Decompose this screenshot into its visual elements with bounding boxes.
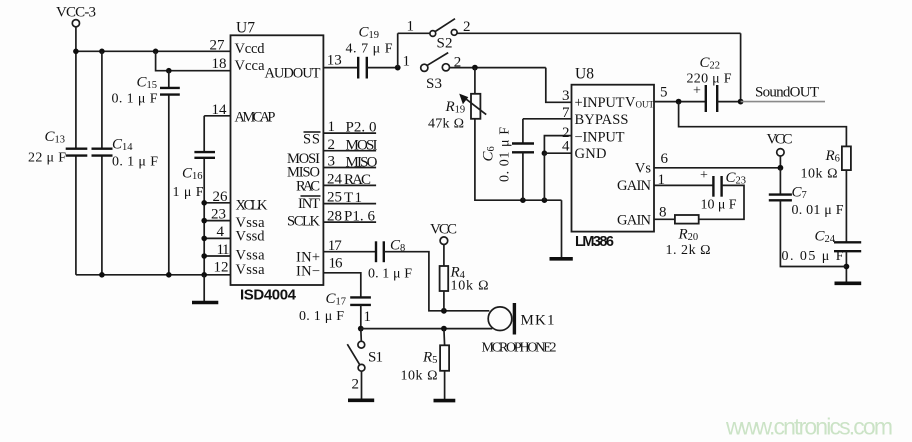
node junction bus C14 bbox=[99, 272, 105, 278]
op-amp U8 LM386 body bbox=[572, 66, 655, 251]
svg-text:8: 8 bbox=[659, 205, 667, 221]
wire S2 rail down to SoundOUT node bbox=[740, 33, 742, 101]
wire bus to ground bbox=[203, 275, 205, 302]
node junction pin18 branch corner bbox=[153, 49, 159, 55]
wire C15 vertical upper bbox=[168, 71, 170, 88]
wire S2 contact 2 to right rail bbox=[457, 32, 740, 34]
svg-text:S2: S2 bbox=[437, 36, 453, 52]
wire S1 to ground bbox=[361, 371, 363, 399]
pin 17 label IN+ bbox=[296, 238, 342, 265]
wire C14 vertical lower bbox=[101, 156, 103, 275]
pin 1 label GAIN bbox=[617, 172, 665, 194]
node junction SoundOUT bbox=[738, 99, 744, 105]
switch S3 bbox=[403, 53, 462, 92]
svg-text:MOSI: MOSI bbox=[346, 138, 378, 154]
wire C15 vertical lower bbox=[168, 95, 170, 275]
pin 16 label IN- bbox=[296, 256, 343, 280]
resistor R6 bbox=[801, 146, 851, 181]
wire C16 vertical upper bbox=[203, 116, 205, 152]
wire C19 to S3 node bbox=[367, 67, 398, 69]
pin 6 label Vs bbox=[635, 151, 669, 177]
capacitor C8 bbox=[368, 238, 412, 282]
power VCC (mic bias) bbox=[430, 221, 457, 266]
pin 18 label Vcca bbox=[212, 56, 266, 74]
switch S1 bbox=[347, 329, 383, 393]
pin 12 label Vssa bbox=[214, 259, 266, 278]
wire P1.6 stub bbox=[323, 209, 376, 225]
capacitor C15 bbox=[112, 75, 180, 107]
node junction pin4 bbox=[201, 236, 207, 242]
svg-text:Vcca: Vcca bbox=[235, 58, 266, 74]
wire rail corner to ground bbox=[561, 200, 563, 258]
wire XCLK stub pin26 bbox=[204, 202, 230, 204]
svg-text:P2. 0: P2. 0 bbox=[346, 120, 377, 136]
svg-text:VCC: VCC bbox=[430, 221, 457, 237]
capacitor C14 bbox=[92, 137, 159, 170]
svg-text:1. 2k Ω: 1. 2k Ω bbox=[666, 243, 711, 258]
svg-text:SS: SS bbox=[303, 132, 320, 148]
ground below S1 bbox=[348, 398, 374, 402]
pin 2 label -INPUT bbox=[562, 125, 625, 146]
op-amp U7 ISD4004 body bbox=[231, 19, 324, 303]
pin 28 label SCLK bbox=[287, 208, 342, 229]
wire MOSI stub bbox=[323, 138, 377, 154]
node junction R5 top bbox=[441, 326, 447, 332]
svg-text:GAIN: GAIN bbox=[617, 178, 652, 194]
svg-text:0. 01 μ F: 0. 01 μ F bbox=[792, 203, 844, 218]
svg-text:13: 13 bbox=[327, 53, 342, 69]
svg-text:18: 18 bbox=[212, 56, 227, 72]
pin 2 label MOSI bbox=[287, 137, 335, 167]
wire -INPUT stub bbox=[544, 136, 571, 154]
wire R5 to ground bbox=[444, 371, 446, 400]
node junction C6 bottom bbox=[520, 197, 526, 203]
svg-text:0. 1 μ F: 0. 1 μ F bbox=[299, 309, 344, 324]
pin 13 label AUDOUT bbox=[265, 53, 342, 82]
svg-text:+: + bbox=[700, 168, 708, 183]
capacitor C13 bbox=[28, 129, 87, 166]
wire Vssa stub pin11 bbox=[204, 255, 230, 257]
wire VCC-3 vertical lower (C13 bottom to bus) bbox=[75, 156, 77, 275]
pin 4 label GND bbox=[562, 139, 607, 163]
svg-text:1: 1 bbox=[364, 309, 372, 325]
wire C7 bottom to ground node bbox=[780, 200, 846, 266]
svg-text:0. 1 μ F: 0. 1 μ F bbox=[112, 92, 158, 107]
node junction pin23 bbox=[201, 218, 207, 224]
svg-text:GAIN: GAIN bbox=[617, 212, 652, 228]
wire BYPASS stub bbox=[523, 118, 572, 120]
wire split vertical to S2 row bbox=[397, 33, 399, 67]
node junction bus C16 bbox=[201, 272, 207, 278]
svg-text:10 μ F: 10 μ F bbox=[701, 198, 737, 213]
pin 8 label GAIN bbox=[617, 205, 667, 229]
svg-text:S1: S1 bbox=[368, 349, 383, 365]
svg-text:SCLK: SCLK bbox=[287, 213, 321, 229]
capacitor C19 bbox=[346, 25, 393, 79]
wire down to +INPUT bbox=[546, 68, 572, 103]
wire Vssd stub pin4 bbox=[204, 237, 230, 239]
svg-text:4: 4 bbox=[562, 139, 570, 155]
pin 7 label BYPASS bbox=[562, 105, 629, 128]
capacitor C7 bbox=[769, 168, 844, 218]
svg-text:27: 27 bbox=[210, 38, 226, 54]
svg-text:LM386: LM386 bbox=[575, 234, 614, 250]
wire P2.0 stub bbox=[323, 120, 376, 136]
svg-text:RAC: RAC bbox=[296, 179, 320, 195]
node SoundOUT bbox=[741, 85, 825, 102]
wire VCC-3 vertical upper (to C13 top) bbox=[75, 27, 77, 149]
pin 3 label MISO bbox=[287, 154, 335, 181]
svg-text:RAC: RAC bbox=[344, 172, 371, 188]
node junction C7 rail / C24 bbox=[844, 264, 850, 270]
node junction R19 tap bbox=[472, 65, 478, 71]
wire R19 bottom to ground rail bbox=[475, 119, 562, 200]
wire pin6 Vs to VCC node bbox=[654, 167, 780, 169]
svg-text:S3: S3 bbox=[426, 76, 442, 92]
svg-text:12: 12 bbox=[214, 259, 229, 275]
wire T1 stub bbox=[323, 190, 376, 206]
svg-text:VCC: VCC bbox=[767, 132, 793, 148]
pin 4 label Vssd bbox=[217, 224, 266, 244]
wire GND stub bbox=[544, 152, 571, 154]
wire R6 to C24 bbox=[845, 170, 847, 242]
resistor R4 bbox=[440, 264, 489, 293]
svg-text:26: 26 bbox=[213, 189, 229, 205]
svg-text:AMCAP: AMCAP bbox=[235, 110, 276, 126]
node junction Vs/C7 bbox=[778, 165, 784, 171]
wire pin1 GAIN to C23 bbox=[654, 184, 713, 186]
svg-text:P1. 6: P1. 6 bbox=[344, 209, 376, 225]
switch S2 bbox=[407, 18, 471, 51]
node junction VOUT branch bbox=[676, 99, 682, 105]
svg-text:SoundOUT: SoundOUT bbox=[755, 85, 819, 101]
svg-text:www.cntronics.com: www.cntronics.com bbox=[725, 414, 893, 440]
svg-text:1: 1 bbox=[403, 54, 411, 70]
pin 14 label AMCAP bbox=[212, 102, 276, 126]
node junction S1 tap bbox=[358, 326, 364, 332]
svg-text:14: 14 bbox=[212, 102, 228, 118]
capacitor C23 bbox=[700, 168, 746, 213]
svg-text:+: + bbox=[693, 84, 701, 99]
svg-text:MCROPHONE2: MCROPHONE2 bbox=[482, 341, 557, 356]
resistor R20 bbox=[666, 215, 711, 258]
wire node to mic lower terminal bbox=[361, 328, 493, 330]
capacitor C16 bbox=[173, 152, 216, 200]
svg-text:1: 1 bbox=[407, 18, 415, 34]
ground below bus bbox=[192, 301, 218, 305]
wire S3 contact 2 to U8 input bbox=[450, 67, 546, 69]
svg-text:11: 11 bbox=[217, 242, 230, 258]
wire Vssa stub pin23 bbox=[204, 220, 230, 222]
svg-text:0. 01 μ F: 0. 01 μ F bbox=[498, 127, 513, 182]
capacitor C22 bbox=[687, 55, 732, 112]
wire pin16 IN- out bbox=[323, 273, 360, 298]
svg-text:U8: U8 bbox=[575, 66, 594, 83]
svg-text:2: 2 bbox=[352, 376, 360, 392]
microphone MK1 bbox=[482, 303, 557, 356]
node junction S2/S3 split bbox=[395, 65, 401, 71]
capacitor C17 bbox=[299, 291, 371, 324]
wire MISO stub bbox=[323, 154, 377, 170]
svg-text:6: 6 bbox=[661, 151, 669, 167]
svg-text:MISO: MISO bbox=[346, 154, 378, 170]
pin 24 label RAC bbox=[296, 172, 343, 195]
capacitor C24 bbox=[782, 229, 862, 265]
node junction pin2/pin4 bbox=[542, 150, 548, 156]
node junction bus C15 bbox=[166, 272, 172, 278]
svg-text:1 μ F: 1 μ F bbox=[173, 185, 204, 200]
wire to S2 contact 1 bbox=[398, 32, 430, 34]
power VCC-3 terminal bbox=[56, 5, 96, 27]
resistor R19 (potentiometer) bbox=[428, 68, 486, 132]
svg-text:U7: U7 bbox=[236, 19, 255, 36]
node junction VCC vertical / pin27 rail bbox=[73, 49, 79, 55]
wire pin13 AUDOUT out bbox=[323, 67, 358, 69]
svg-text:0. 1 μ F: 0. 1 μ F bbox=[112, 155, 158, 170]
svg-text:10k Ω: 10k Ω bbox=[451, 278, 489, 293]
wire pin14 stub bbox=[204, 115, 230, 117]
svg-text:−INPUT: −INPUT bbox=[575, 130, 625, 146]
wire VOUT branch down and right to R6 bbox=[679, 102, 847, 147]
wire pin17 IN+ out bbox=[323, 251, 376, 253]
pin 3 label +INPUT bbox=[562, 88, 625, 111]
svg-text:VCC-3: VCC-3 bbox=[56, 5, 96, 21]
node junction C15 top bbox=[166, 68, 172, 74]
svg-text:23: 23 bbox=[211, 206, 226, 222]
wire RAC stub bbox=[323, 172, 376, 188]
wire C24 to ground node bbox=[845, 251, 847, 282]
pin 27 label Vccd bbox=[210, 38, 266, 57]
svg-text:Vssd: Vssd bbox=[236, 229, 266, 245]
pin 25 label INT with overline bbox=[298, 190, 342, 212]
ground below R5 bbox=[434, 399, 456, 403]
svg-text:3: 3 bbox=[562, 88, 570, 104]
svg-text:BYPASS: BYPASS bbox=[575, 112, 629, 128]
svg-text:5: 5 bbox=[660, 85, 668, 101]
node junction -INPUT/GND drop bbox=[542, 197, 548, 203]
svg-text:INT: INT bbox=[298, 196, 320, 212]
ground below C24 bbox=[835, 281, 862, 285]
node junction C14 top bbox=[99, 49, 105, 55]
wire C22 to SoundOUT node bbox=[717, 101, 740, 103]
wire ground bus pin12 bbox=[76, 274, 231, 276]
pin 5 label VOUT bbox=[625, 85, 668, 111]
svg-text:+INPUT: +INPUT bbox=[575, 95, 625, 111]
pin 1 label SS with overline bbox=[303, 119, 335, 148]
node junction pin26 bbox=[201, 200, 207, 206]
wire R4 to mic node bbox=[443, 291, 445, 311]
wire pin2/4 down to rail bbox=[543, 153, 545, 200]
ground below U8 rail bbox=[550, 257, 573, 261]
svg-text:IN−: IN− bbox=[296, 264, 320, 280]
svg-text:4: 4 bbox=[217, 224, 225, 240]
wire C17 to node 1 bbox=[360, 305, 362, 329]
wire pin27 rail bbox=[76, 50, 231, 52]
node junction R4 bottom bbox=[441, 308, 447, 314]
svg-text:T1: T1 bbox=[344, 190, 362, 206]
svg-text:Vs: Vs bbox=[635, 161, 651, 177]
svg-text:XCLK: XCLK bbox=[236, 198, 269, 214]
svg-text:ISD4004: ISD4004 bbox=[240, 287, 297, 304]
wire C14 vertical upper bbox=[101, 51, 103, 148]
resistor R5 bbox=[401, 329, 450, 384]
svg-text:16: 16 bbox=[329, 256, 344, 272]
svg-text:10k Ω: 10k Ω bbox=[401, 369, 438, 384]
svg-text:4. 7 μ F: 4. 7 μ F bbox=[346, 42, 393, 57]
svg-text:47k Ω: 47k Ω bbox=[428, 117, 464, 132]
svg-text:MK1: MK1 bbox=[521, 313, 555, 329]
node junction pin11 bbox=[201, 253, 207, 259]
capacitor C6 bbox=[481, 119, 535, 200]
svg-text:Vssa: Vssa bbox=[236, 262, 266, 278]
wire C23 to R20 loop bbox=[699, 185, 744, 219]
wire pin8 GAIN to R20 bbox=[654, 218, 675, 220]
svg-text:GND: GND bbox=[575, 146, 607, 162]
svg-text:10k Ω: 10k Ω bbox=[801, 167, 838, 182]
wire C16 vertical lower bbox=[203, 158, 205, 275]
svg-text:AUDOUT: AUDOUT bbox=[265, 66, 321, 82]
svg-text:Vccd: Vccd bbox=[235, 41, 266, 57]
svg-text:0. 1 μ F: 0. 1 μ F bbox=[368, 266, 412, 281]
svg-text:22 μ F: 22 μ F bbox=[28, 151, 66, 166]
power VCC (amp) bbox=[767, 132, 793, 168]
wire C8 to mic node bbox=[384, 252, 490, 311]
pin 11 label Vssa bbox=[217, 242, 266, 264]
svg-text:7: 7 bbox=[562, 105, 570, 121]
wire pin18 branch bbox=[156, 51, 231, 70]
pin 23 label Vssa bbox=[211, 206, 265, 231]
wire pin5 VOUT out bbox=[654, 101, 706, 103]
pin 26 label XCLK bbox=[213, 189, 269, 214]
